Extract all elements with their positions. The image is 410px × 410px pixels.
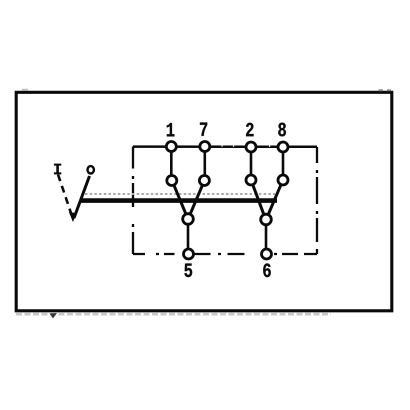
schematic outer border (16, 92, 392, 310)
actuator bar (mechanical link) (81, 198, 278, 203)
small scan nicks on top edge (222, 145, 223, 147)
pole 2 blade to contact 8 (268, 185, 281, 214)
switch enclosure S1 outline: top edge (wire through terminals) (133, 145, 317, 148)
terminal 8 circle (278, 142, 288, 152)
lever position label 0 (88, 166, 94, 173)
fixed contact under terminal 8 (278, 175, 288, 185)
terminal 7 circle (200, 142, 210, 152)
fixed contact under terminal 1 (167, 176, 177, 186)
stem terminal 8 to contact (282, 152, 285, 175)
stem pole 1 common to terminal 5 (187, 225, 190, 249)
scan artifact: gray fuzz above actuator bar (85, 193, 275, 195)
lever alternate position (dashed arm) (58, 175, 72, 215)
pole 2 common contact circle (261, 214, 272, 225)
scan artifact: gray fuzz below border (16, 313, 331, 316)
terminal label 1 (167, 123, 175, 136)
switch enclosure left edge dash-dot (132, 147, 134, 255)
terminal label 5 (184, 264, 192, 278)
switch enclosure bottom edge dash-dot (133, 253, 317, 255)
terminal 5 circle (184, 249, 194, 259)
terminal label 7 (200, 123, 207, 136)
scan artifact: tick above top border left (22, 89, 28, 91)
stem terminal 1 to contact (170, 152, 173, 176)
terminal 1 circle (166, 142, 176, 152)
fixed contact under terminal 7 (199, 176, 209, 186)
scan artifact: ticks above top border right (379, 89, 384, 91)
lever actual position arm (74, 176, 90, 218)
stem terminal 2 to contact (250, 152, 253, 175)
pole 1 blade to contact 1 (174, 185, 186, 214)
pole 1 common contact circle (183, 214, 194, 225)
pole 1 blade to contact 7 (190, 185, 202, 214)
stem terminal 7 to contact (204, 152, 207, 176)
fixed contact under terminal 2 (246, 175, 256, 185)
scan artifact: dark speck below border (50, 313, 58, 319)
terminal 6 circle (262, 249, 272, 259)
lever position label I (54, 164, 61, 175)
terminal label 2 (246, 123, 253, 137)
terminal 2 circle (246, 142, 256, 152)
switch enclosure right edge dash-dot (316, 147, 318, 254)
pole 2 blade to contact 2 (253, 185, 264, 214)
terminal label 6 (263, 263, 271, 277)
stem pole 2 common to terminal 6 (265, 226, 268, 250)
terminal label 8 (278, 123, 286, 137)
lever arrowhead (69, 212, 77, 222)
